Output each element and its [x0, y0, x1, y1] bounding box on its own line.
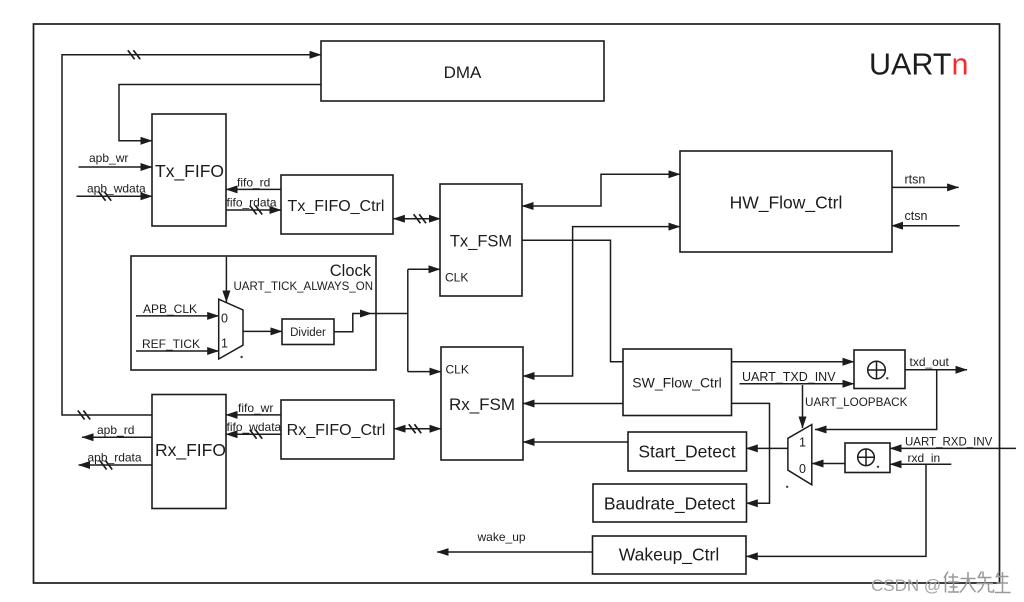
- svg-text:UARTn: UARTn: [869, 48, 968, 82]
- svg-text:wake_up: wake_up: [477, 530, 526, 544]
- wire wake_up: [437, 530, 592, 552]
- wire Rx_FIFO_Ctrl to Rx_FSM bidirectional bus: [394, 424, 441, 433]
- wire xor X2 to mux M2 input 0: [812, 463, 845, 465]
- svg-text:CSDN @: CSDN @: [871, 576, 941, 595]
- svg-text:txd_out: txd_out: [910, 355, 950, 369]
- wire Tx_FSM to SW_Flow_Ctrl: [522, 240, 623, 361]
- block Rx_FIFO: [152, 395, 226, 509]
- wire HW_Flow_Ctrl to Rx_FSM: [523, 227, 680, 376]
- wire Rx_FIFO to DMA (left bus): [62, 50, 321, 419]
- svg-text:REF_TICK: REF_TICK: [142, 337, 200, 351]
- wire rxd to Wakeup_Ctrl: [746, 464, 926, 556]
- svg-text:0: 0: [221, 312, 228, 326]
- svg-text:apb_wdata: apb_wdata: [87, 182, 146, 196]
- svg-text:Tx_FIFO_Ctrl: Tx_FIFO_Ctrl: [288, 198, 385, 215]
- wire clock to Tx_FSM CLK: [408, 268, 440, 270]
- wire Tx_FIFO_Ctrl to Tx_FSM bidirectional bus: [393, 214, 440, 223]
- block Divider: [282, 319, 334, 345]
- wire txd_out: [905, 355, 967, 370]
- svg-text:Tx_FIFO: Tx_FIFO: [155, 161, 224, 182]
- block Rx_FIFO_Ctrl: [281, 400, 394, 459]
- wire mux M1 to Divider: [243, 330, 282, 332]
- wire REF_TICK: [136, 337, 219, 351]
- block Wakeup_Ctrl: [593, 536, 747, 574]
- svg-text:UART_RXD_INV: UART_RXD_INV: [905, 436, 993, 448]
- svg-text:fifo_rd: fifo_rd: [237, 176, 270, 190]
- wire SW_Flow_Ctrl to Baudrate_Detect: [731, 403, 769, 503]
- wire apb_wr: [79, 151, 153, 167]
- wire SW_Flow_Ctrl to Rx_FSM: [523, 403, 623, 405]
- svg-text:apb_rd: apb_rd: [97, 423, 134, 437]
- block DMA: [321, 41, 604, 101]
- wire DMA to Tx_FIFO: [119, 85, 321, 141]
- wire rtsn: [892, 173, 959, 188]
- block Start_Detect: [628, 432, 747, 471]
- svg-text:Clock: Clock: [330, 262, 372, 280]
- block Baudrate_Detect: [593, 484, 747, 522]
- svg-text:fifo_wdata: fifo_wdata: [227, 420, 282, 434]
- wire Divider output to clock net: [334, 310, 408, 332]
- watermark glyph jia: [944, 572, 959, 593]
- svg-text:APB_CLK: APB_CLK: [143, 302, 197, 316]
- svg-text:rxd_in: rxd_in: [908, 451, 941, 465]
- wire ctsn: [892, 209, 960, 226]
- watermark glyph sheng: [995, 572, 1011, 593]
- svg-text:Rx_FSM: Rx_FSM: [449, 395, 515, 414]
- watermark CSDN: [871, 572, 1011, 596]
- svg-text:UART_TICK_ALWAYS_ON: UART_TICK_ALWAYS_ON: [233, 281, 373, 293]
- svg-text:Tx_FSM: Tx_FSM: [450, 232, 512, 250]
- block Rx_FSM: [441, 347, 523, 460]
- svg-text:DMA: DMA: [444, 63, 482, 82]
- block SW_Flow_Ctrl: [623, 349, 732, 416]
- svg-text:1: 1: [221, 337, 228, 351]
- stray dot near xor X2: [877, 466, 879, 468]
- block Clock: [131, 256, 376, 370]
- stray dot near xor X1: [886, 377, 888, 379]
- wire clock to Rx_FSM CLK: [408, 371, 441, 373]
- svg-text:Rx_FIFO_Ctrl: Rx_FIFO_Ctrl: [287, 422, 386, 439]
- wire UART_TICK_ALWAYS_ON select into mux M1: [225, 257, 227, 302]
- block HW_Flow_Ctrl: [680, 151, 892, 252]
- svg-text:0: 0: [799, 462, 806, 476]
- svg-text:CLK: CLK: [445, 271, 468, 285]
- svg-text:Wakeup_Ctrl: Wakeup_Ctrl: [619, 545, 720, 566]
- wire txd loopback to mux M2 input 1: [815, 370, 937, 430]
- wire fifo_wr: [226, 401, 281, 415]
- wire clock net vertical: [407, 269, 409, 371]
- xor gate X2 rxd: [845, 443, 890, 473]
- svg-text:fifo_rdata: fifo_rdata: [227, 196, 277, 210]
- wire UART_LOOPBACK select into mux M2: [803, 385, 908, 428]
- stray dot near mux M1: [240, 356, 242, 358]
- block Tx_FIFO: [152, 114, 226, 226]
- wire apb_rd: [82, 423, 152, 437]
- svg-text:ctsn: ctsn: [905, 209, 928, 223]
- svg-text:Baudrate_Detect: Baudrate_Detect: [604, 494, 735, 515]
- wire UART_TXD_INV: [740, 370, 855, 384]
- wire UART_RXD_INV: [890, 436, 1016, 448]
- svg-text:Divider: Divider: [290, 327, 326, 339]
- svg-text:fifo_wr: fifo_wr: [238, 401, 273, 415]
- wire SW_Flow_Ctrl to xor X1: [731, 361, 854, 363]
- svg-text:Start_Detect: Start_Detect: [638, 442, 735, 463]
- wire mux M2 output to Start_Detect: [746, 447, 788, 449]
- svg-text:apb_rdata: apb_rdata: [88, 451, 142, 465]
- svg-text:apb_wr: apb_wr: [89, 151, 128, 165]
- svg-text:HW_Flow_Ctrl: HW_Flow_Ctrl: [730, 193, 843, 214]
- svg-text:rtsn: rtsn: [905, 173, 926, 187]
- wire apb_wdata: [77, 182, 153, 201]
- wire apb_rdata: [79, 451, 152, 470]
- wire fifo_rd: [226, 176, 281, 190]
- wire fifo_wdata: [226, 420, 282, 439]
- stray dot near mux M2: [786, 486, 788, 488]
- svg-text:SW_Flow_Ctrl: SW_Flow_Ctrl: [632, 375, 721, 391]
- wire Start_Detect to Rx_FSM: [523, 441, 628, 443]
- mux M2 loopback: [788, 425, 812, 485]
- svg-text:CLK: CLK: [446, 363, 469, 377]
- watermark glyph xian: [977, 572, 994, 593]
- block Tx_FSM: [440, 184, 522, 296]
- mux M1 clock-select: [219, 299, 243, 359]
- watermark glyph da: [960, 572, 976, 593]
- wire Tx_FSM to HW_Flow_Ctrl: [522, 174, 680, 206]
- svg-text:Rx_FIFO: Rx_FIFO: [155, 440, 226, 461]
- svg-text:1: 1: [799, 436, 806, 450]
- block Tx_FIFO_Ctrl: [281, 175, 393, 234]
- wire APB_CLK: [136, 302, 219, 316]
- wire rxd_in: [890, 451, 951, 465]
- svg-text:UART_LOOPBACK: UART_LOOPBACK: [805, 396, 908, 409]
- svg-text:UART_TXD_INV: UART_TXD_INV: [742, 370, 836, 384]
- xor gate X1 txd: [854, 350, 905, 389]
- wire fifo_rdata: [226, 196, 281, 215]
